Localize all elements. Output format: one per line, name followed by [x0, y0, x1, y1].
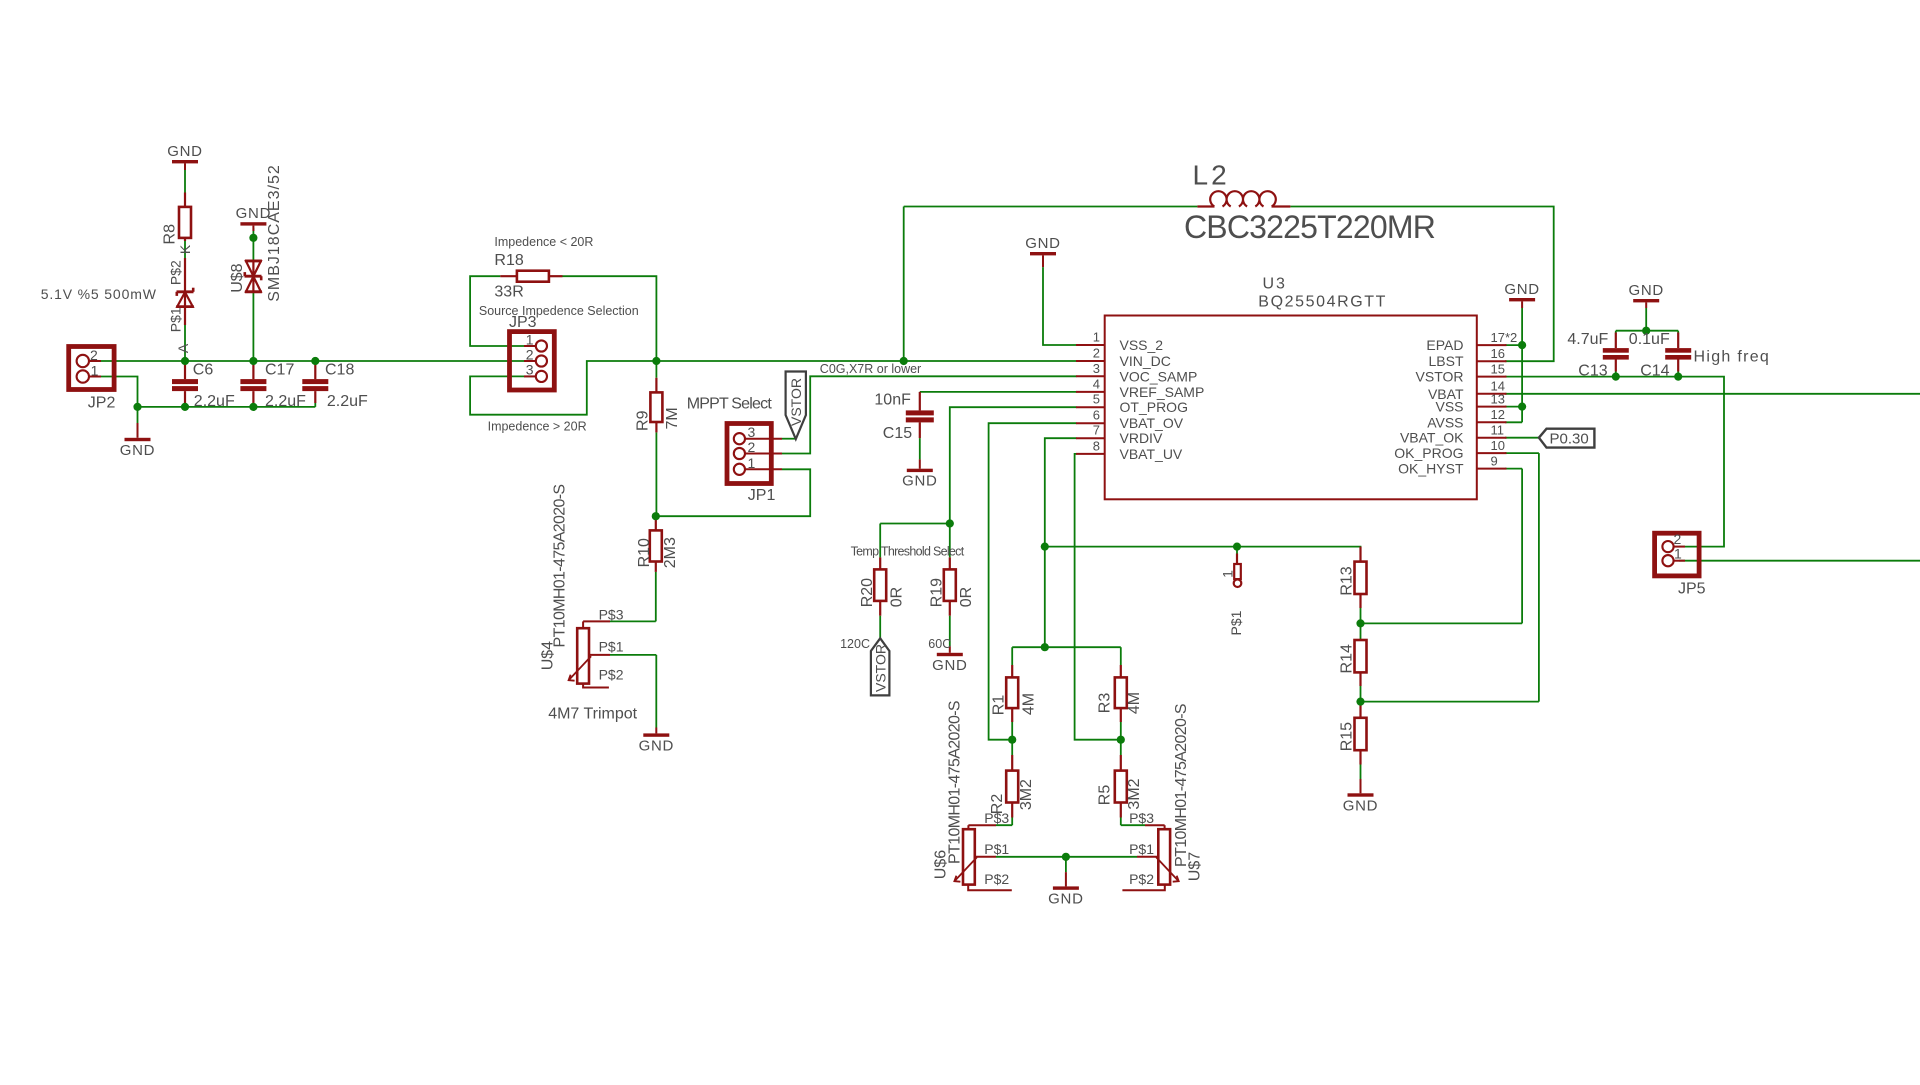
svg-text:VSTOR: VSTOR	[1416, 369, 1464, 385]
svg-text:GND: GND	[1504, 281, 1539, 298]
svg-text:OT_PROG: OT_PROG	[1120, 399, 1188, 415]
svg-text:A: A	[175, 343, 191, 353]
svg-text:PT10MH01-475A2020-S: PT10MH01-475A2020-S	[1173, 704, 1190, 867]
svg-text:GND: GND	[120, 442, 155, 459]
svg-text:R3: R3	[1096, 693, 1113, 714]
svg-text:U$8: U$8	[229, 263, 246, 292]
svg-text:VSTOR: VSTOR	[873, 644, 889, 692]
svg-text:2: 2	[526, 346, 534, 362]
svg-text:K: K	[177, 244, 193, 254]
svg-text:60C: 60C	[928, 637, 951, 651]
svg-text:3M2: 3M2	[1018, 779, 1035, 810]
svg-text:C15: C15	[883, 425, 912, 442]
svg-text:R1: R1	[990, 695, 1007, 716]
svg-text:10: 10	[1491, 438, 1505, 453]
svg-text:P$2: P$2	[984, 871, 1009, 887]
svg-text:2: 2	[90, 347, 98, 363]
svg-text:P$3: P$3	[599, 606, 624, 622]
svg-text:R8: R8	[161, 224, 178, 245]
svg-text:GND: GND	[167, 143, 202, 160]
svg-text:17*2: 17*2	[1491, 330, 1518, 345]
svg-text:2: 2	[1093, 346, 1100, 361]
svg-text:R15: R15	[1339, 722, 1356, 751]
svg-text:3: 3	[526, 362, 534, 378]
svg-text:JP5: JP5	[1678, 581, 1706, 598]
svg-text:12: 12	[1491, 407, 1505, 422]
svg-text:6: 6	[1093, 408, 1100, 423]
svg-text:120C: 120C	[840, 637, 870, 651]
svg-text:1: 1	[1220, 570, 1236, 578]
svg-text:OK_HYST: OK_HYST	[1398, 461, 1464, 477]
svg-text:VBAT_UV: VBAT_UV	[1120, 446, 1183, 462]
svg-text:2.2uF: 2.2uF	[327, 393, 368, 410]
svg-text:P$1: P$1	[1129, 841, 1154, 857]
svg-text:1: 1	[1674, 545, 1682, 561]
svg-text:PT10MH01-475A2020-S: PT10MH01-475A2020-S	[947, 701, 964, 864]
svg-text:2.2uF: 2.2uF	[194, 393, 235, 410]
svg-text:R13: R13	[1339, 566, 1356, 595]
svg-text:4M7 Trimpot: 4M7 Trimpot	[548, 706, 637, 723]
svg-text:High freq: High freq	[1694, 349, 1771, 366]
svg-text:13: 13	[1491, 391, 1505, 406]
svg-text:16: 16	[1491, 346, 1505, 361]
svg-text:P$1: P$1	[1228, 610, 1244, 635]
svg-text:9: 9	[1491, 453, 1498, 468]
svg-text:3: 3	[748, 424, 756, 440]
svg-text:GND: GND	[932, 657, 967, 674]
svg-text:P$2: P$2	[168, 260, 184, 285]
svg-text:1: 1	[526, 331, 534, 347]
svg-text:VSTOR: VSTOR	[788, 378, 804, 426]
svg-text:C17: C17	[265, 362, 294, 379]
svg-text:R2: R2	[989, 794, 1006, 815]
svg-text:AVSS: AVSS	[1427, 414, 1463, 430]
svg-text:P$1: P$1	[599, 639, 624, 655]
svg-text:SMBJ18CAE3/52: SMBJ18CAE3/52	[266, 164, 283, 302]
svg-text:11: 11	[1491, 423, 1505, 438]
svg-text:R19: R19	[929, 578, 946, 607]
svg-text:4M: 4M	[1020, 693, 1037, 715]
svg-text:15: 15	[1491, 361, 1505, 376]
svg-text:VIN_DC: VIN_DC	[1120, 353, 1171, 369]
svg-text:4.7uF: 4.7uF	[1567, 331, 1608, 348]
svg-text:JP1: JP1	[748, 487, 776, 504]
svg-text:R20: R20	[859, 578, 876, 607]
svg-text:3M2: 3M2	[1126, 778, 1143, 809]
svg-text:GND: GND	[1628, 282, 1663, 299]
svg-text:Impedence > 20R: Impedence > 20R	[488, 420, 587, 434]
svg-text:P$1: P$1	[168, 307, 184, 332]
svg-text:R14: R14	[1339, 644, 1356, 673]
svg-text:GND: GND	[1048, 890, 1083, 907]
svg-text:P0.30: P0.30	[1550, 430, 1589, 447]
svg-text:3: 3	[1093, 361, 1100, 376]
svg-text:7: 7	[1093, 423, 1100, 438]
svg-text:10nF: 10nF	[874, 392, 911, 409]
svg-text:VREF_SAMP: VREF_SAMP	[1120, 384, 1205, 400]
svg-text:VOC_SAMP: VOC_SAMP	[1120, 368, 1198, 384]
svg-text:P$2: P$2	[599, 667, 624, 683]
svg-text:CBC3225T220MR: CBC3225T220MR	[1184, 209, 1435, 245]
svg-text:L2: L2	[1193, 160, 1230, 191]
svg-text:Source Impedence Selection: Source Impedence Selection	[479, 304, 639, 318]
svg-text:P$2: P$2	[1129, 871, 1154, 887]
svg-text:2: 2	[748, 439, 756, 455]
svg-text:GND: GND	[902, 473, 937, 490]
svg-text:1: 1	[91, 363, 99, 379]
svg-text:VBAT_OV: VBAT_OV	[1120, 415, 1184, 431]
svg-text:EPAD: EPAD	[1426, 337, 1463, 353]
svg-text:VBAT_OK: VBAT_OK	[1400, 430, 1464, 446]
svg-text:JP2: JP2	[88, 395, 116, 412]
svg-text:GND: GND	[1025, 235, 1060, 252]
svg-text:1: 1	[1093, 330, 1100, 345]
svg-text:R18: R18	[494, 252, 523, 269]
svg-text:C13: C13	[1578, 363, 1607, 380]
svg-text:VSS: VSS	[1435, 399, 1463, 415]
svg-text:2.2uF: 2.2uF	[265, 393, 306, 410]
svg-text:C6: C6	[193, 362, 214, 379]
svg-text:5.1V %5 500mW: 5.1V %5 500mW	[41, 286, 157, 302]
svg-text:P$1: P$1	[984, 841, 1009, 857]
svg-text:5: 5	[1093, 392, 1100, 407]
svg-text:PT10MH01-475A2020-S: PT10MH01-475A2020-S	[552, 485, 569, 648]
svg-text:8: 8	[1093, 438, 1100, 453]
svg-text:7M: 7M	[664, 407, 681, 429]
svg-text:R5: R5	[1096, 785, 1113, 806]
svg-text:4: 4	[1093, 376, 1100, 391]
svg-text:VSS_2: VSS_2	[1120, 337, 1164, 353]
svg-text:R9: R9	[635, 410, 652, 431]
svg-text:2M3: 2M3	[662, 537, 679, 568]
svg-text:JP3: JP3	[509, 314, 537, 331]
svg-text:VRDIV: VRDIV	[1120, 430, 1163, 446]
svg-text:Impedence < 20R: Impedence < 20R	[494, 235, 593, 249]
svg-text:U3: U3	[1263, 276, 1287, 293]
svg-text:0R: 0R	[889, 587, 906, 607]
svg-text:33R: 33R	[494, 284, 523, 301]
svg-text:BQ25504RGTT: BQ25504RGTT	[1258, 294, 1387, 311]
svg-text:0.1uF: 0.1uF	[1629, 331, 1670, 348]
svg-text:C0G,X7R or lower: C0G,X7R or lower	[820, 362, 921, 376]
svg-text:0R: 0R	[958, 587, 975, 607]
svg-text:GND: GND	[1343, 797, 1378, 814]
svg-text:1: 1	[748, 455, 756, 471]
svg-text:GND: GND	[639, 737, 674, 754]
svg-text:LBST: LBST	[1428, 353, 1463, 369]
svg-text:P$3: P$3	[1129, 810, 1154, 826]
svg-text:OK_PROG: OK_PROG	[1394, 445, 1463, 461]
svg-text:4M: 4M	[1126, 692, 1143, 714]
svg-text:C14: C14	[1640, 363, 1669, 380]
svg-text:Temp Threshold Select: Temp Threshold Select	[851, 544, 965, 558]
svg-text:R10: R10	[636, 538, 653, 567]
svg-text:C18: C18	[325, 362, 354, 379]
svg-text:MPPT Select: MPPT Select	[687, 396, 773, 413]
